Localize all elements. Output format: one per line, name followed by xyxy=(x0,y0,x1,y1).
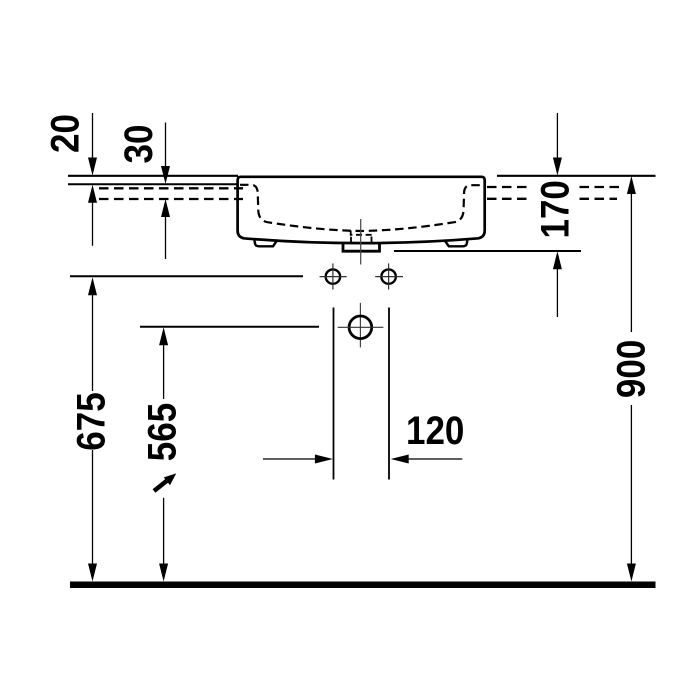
left foot xyxy=(254,239,277,246)
dim 120 extension line right xyxy=(388,308,390,480)
dim 170 arrow down xyxy=(553,158,562,176)
faucet hole horizontal cross xyxy=(338,326,384,328)
hidden edge dashed upper left xyxy=(99,187,243,189)
countertop line right (top solid) xyxy=(497,175,656,177)
dim 30 arrow down xyxy=(161,166,170,184)
fixing hole left cross xyxy=(320,263,347,289)
slope direction arrow xyxy=(154,473,176,491)
reference line for 565 (faucet hole level) xyxy=(140,326,319,328)
dim 900 arrow down xyxy=(627,564,636,582)
svg-text:30: 30 xyxy=(116,125,161,164)
dim 900 arrow up xyxy=(627,176,636,194)
svg-text:900: 900 xyxy=(608,340,653,398)
faucet hole circle xyxy=(349,316,372,339)
dim 20 upper extension line xyxy=(92,113,94,160)
hidden edge dashed lower left xyxy=(99,198,243,200)
dim 20 lower extension line xyxy=(92,200,94,246)
washbasin outer outline xyxy=(238,177,485,243)
dim 120 extension line left xyxy=(333,308,335,480)
floor ground line xyxy=(70,582,656,589)
dim 900 line upper xyxy=(630,192,632,332)
dim 120 arrow pointing left xyxy=(391,455,409,464)
dim 170 upper extension line xyxy=(556,113,558,158)
reference line for 675 (fixing holes level) xyxy=(70,275,303,277)
drain recess dashed xyxy=(351,231,372,235)
dim 170 lower extension line xyxy=(556,268,558,317)
hidden edge dashed lower right segment a xyxy=(487,198,532,200)
countertop underside line left (second solid) xyxy=(68,183,238,185)
drain recess side solid right xyxy=(371,237,373,243)
svg-text:20: 20 xyxy=(42,114,87,153)
dim 120 right arrow line xyxy=(405,458,462,460)
drain block xyxy=(343,242,380,251)
dim 20 arrow down xyxy=(88,158,97,176)
dim 120 arrow pointing right xyxy=(315,455,333,464)
fixing hole right circle xyxy=(381,269,395,283)
dim 170 arrow up xyxy=(553,251,562,269)
fixing hole right cross xyxy=(375,263,403,289)
reference line for 170 bottom (drain block level) xyxy=(394,250,581,252)
dim 20 arrow up xyxy=(88,185,97,203)
countertop line left (top solid) xyxy=(68,175,238,177)
svg-text:565: 565 xyxy=(139,403,184,461)
svg-text:170: 170 xyxy=(532,180,577,238)
right foot xyxy=(444,239,467,246)
fixing hole left circle xyxy=(326,269,340,283)
dim 565 arrow down xyxy=(159,564,168,582)
dim 30 lower extension line xyxy=(165,216,167,259)
hidden edge dashed upper right segment a xyxy=(487,186,532,188)
hidden edge dashed upper right segment b xyxy=(580,186,620,188)
hidden edge dashed lower right segment b xyxy=(580,198,618,200)
dim 565 line upper xyxy=(163,344,165,400)
svg-text:120: 120 xyxy=(406,408,464,453)
dim 565 arrow up xyxy=(159,327,168,345)
dim 30 arrow up xyxy=(161,199,170,217)
drain recess side solid left xyxy=(350,237,352,243)
washbasin interior dashed contour xyxy=(240,185,482,231)
centerline through faucet hole xyxy=(359,303,361,348)
dim 900 line lower xyxy=(630,405,632,565)
svg-text:675: 675 xyxy=(68,392,113,450)
dim 30 upper extension line xyxy=(165,123,167,168)
dim 675 arrow up xyxy=(88,277,97,295)
dim 675 arrow down xyxy=(88,564,97,582)
centerline through drain xyxy=(360,219,362,265)
dim 120 left arrow line xyxy=(263,458,318,460)
dim 675 line upper xyxy=(92,293,94,391)
dim 565 line lower xyxy=(163,498,165,565)
dim 675 line lower xyxy=(92,450,94,565)
